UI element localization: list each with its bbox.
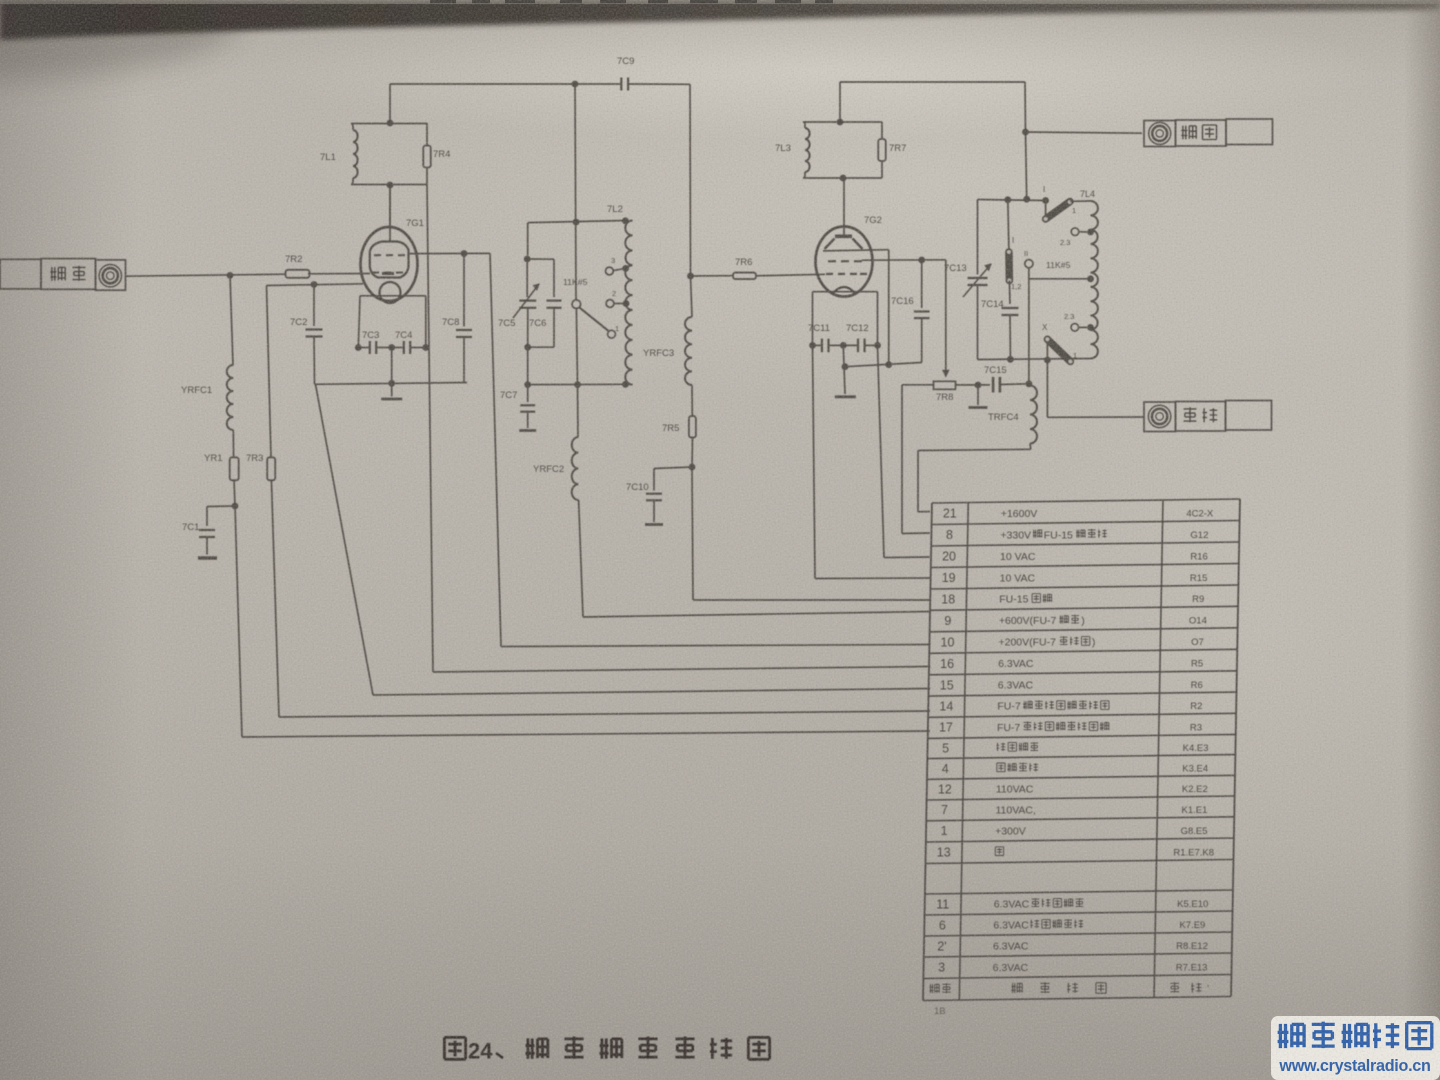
switch blade I bbox=[1045, 201, 1047, 217]
wire row17 vertical bbox=[235, 506, 242, 737]
7G1 grid dashes bbox=[374, 254, 381, 256]
wire down row18 bbox=[692, 467, 693, 600]
contact 2.3 lower bbox=[1071, 324, 1079, 332]
caption tu24 ji-li-ji-dian-yuan-li-tu bbox=[444, 1037, 465, 1059]
wire input to grid bbox=[126, 274, 287, 276]
wire screen down arrow bbox=[945, 260, 947, 371]
wire down to 7L4 rail bbox=[1026, 132, 1027, 199]
wire down to output node bbox=[1024, 82, 1027, 132]
capacitor 7C15 bbox=[992, 377, 995, 393]
capacitor 7C14 bbox=[1008, 281, 1011, 305]
wire TG1 cathode rail bbox=[315, 383, 468, 385]
capacitor 7C13 bbox=[977, 200, 979, 275]
switch 11K5 pole bbox=[572, 300, 581, 309]
wire row17 horizontal bbox=[242, 731, 930, 737]
neutralize connector (zhong-he) bbox=[1144, 402, 1176, 432]
wire YRFC2 down row9 bbox=[579, 500, 583, 617]
resistor 7R6 bbox=[691, 275, 734, 277]
contact II bbox=[1025, 260, 1033, 268]
capacitor 7C16 bbox=[921, 260, 923, 308]
inductor YRFC1 bbox=[227, 365, 233, 430]
resistor 7R3 bbox=[267, 457, 275, 480]
terminal table bbox=[932, 499, 1240, 503]
wire row15 horizontal bbox=[373, 689, 930, 696]
wire TRFC4 to row21 bbox=[1029, 444, 1032, 450]
top rail 2 bbox=[840, 81, 1025, 83]
resistor 7R2 bbox=[286, 270, 310, 278]
row8 wire TR8 net bbox=[902, 384, 934, 386]
wire row8 down bbox=[901, 385, 903, 534]
node 7C2 top bbox=[311, 281, 318, 288]
wire row14 horizontal bbox=[279, 711, 930, 717]
node rail-7L2 junction bbox=[572, 81, 579, 88]
switch lever bbox=[579, 307, 608, 331]
wire grid2 line y284 bbox=[267, 284, 364, 286]
7G1 cathode circle bbox=[380, 282, 401, 303]
capacitor 7C6 branch bbox=[527, 258, 554, 260]
tube 7G1 bbox=[361, 227, 418, 301]
capacitor 7C7 bbox=[527, 385, 529, 402]
wire TR3 top bbox=[267, 286, 272, 458]
7L2 tank top wire bbox=[528, 221, 626, 223]
capacitor 7C2 bbox=[313, 285, 315, 327]
7G1 plate ring bbox=[370, 242, 409, 278]
wire YRFC1 to YR1 bbox=[232, 430, 234, 458]
node output branch bbox=[1022, 129, 1029, 136]
wire HT vertical x575 bbox=[575, 84, 576, 300]
watermark crystalradio bbox=[1271, 1016, 1440, 1080]
node gnd TC15 bbox=[975, 382, 982, 389]
inductor 7L4 bbox=[1091, 201, 1098, 359]
inductor 7L3 bbox=[805, 128, 810, 172]
pole I string bbox=[1008, 200, 1009, 249]
switch blade II bbox=[1046, 343, 1048, 360]
wire top rail down x690 bbox=[689, 84, 692, 276]
7G2 plate lead bbox=[843, 178, 845, 238]
wire 7L3 to top rail2 bbox=[839, 82, 841, 122]
wire row9 horizontal bbox=[583, 612, 930, 618]
tank 7L3/7R7 bbox=[803, 121, 882, 123]
inductor 7L2 bbox=[625, 221, 632, 385]
ground TG1 rail bbox=[391, 383, 393, 396]
wire YR1 down bbox=[234, 480, 235, 506]
wire junction down to YRFC1 bbox=[230, 275, 233, 365]
7G2 beam plates bbox=[825, 239, 835, 250]
wire row19 bbox=[813, 345, 816, 578]
tap wire to coil bbox=[1029, 278, 1091, 280]
ground 7C1 bbox=[198, 556, 217, 559]
7G1 cathode box bbox=[360, 295, 426, 297]
wire tank to top rail bbox=[389, 84, 391, 123]
7L4 bottom rail bbox=[978, 359, 1092, 360]
7G1 plate lead bbox=[389, 185, 391, 242]
7G2 screen wire bbox=[862, 259, 946, 261]
resistor YR1 bbox=[230, 457, 239, 480]
7G2 cathode dome bbox=[832, 287, 856, 295]
contact 2 bbox=[606, 300, 614, 308]
wire row16 horizontal bbox=[433, 667, 930, 673]
inductor YRFC2 bbox=[577, 385, 580, 437]
7G2 grid dashes bbox=[828, 260, 836, 262]
wire 7R3 down row14 bbox=[271, 480, 279, 717]
resistor 7R8 bbox=[934, 381, 956, 389]
wire tank to 7G1 plate bbox=[389, 185, 391, 230]
wire row10 horizontal bbox=[501, 645, 930, 647]
capacitor 7C11 bbox=[813, 344, 822, 346]
7G2 beam plate wire bbox=[823, 250, 889, 251]
input connector J1 (shu-ru) bbox=[0, 259, 41, 289]
wire screen down row10 bbox=[490, 253, 501, 646]
wire cathode mid gnd bbox=[843, 345, 845, 394]
wire contact down bbox=[1028, 268, 1030, 384]
wire neutral bbox=[1046, 360, 1048, 417]
7C5 arrow bbox=[513, 284, 539, 318]
wire to output connector bbox=[1026, 132, 1143, 133]
7L4 top rail bbox=[978, 200, 1046, 201]
capacitor 7C10 bbox=[654, 467, 692, 469]
resistor 7R4 bbox=[423, 146, 431, 168]
wire row20 bbox=[878, 345, 885, 557]
ground 7R8 net bbox=[977, 385, 979, 405]
wire row18 horizontal bbox=[693, 599, 930, 601]
wire 7R6 to 7G2 grid bbox=[756, 274, 825, 276]
wire cathode mid to ground rail bbox=[391, 348, 393, 384]
contact 2.3 upper bbox=[1071, 228, 1079, 236]
node 7C8 top bbox=[461, 250, 468, 257]
resistor 7R7 bbox=[878, 139, 886, 161]
7G1 screen lead right bbox=[409, 252, 490, 254]
inductor 7L1 bbox=[353, 130, 358, 178]
capacitor 7C3 bbox=[358, 347, 369, 349]
wire blade to coil bbox=[1070, 200, 1091, 202]
node rail ground bbox=[388, 380, 395, 387]
capacitor 7C8 bbox=[463, 254, 465, 327]
tube 7G2 bbox=[816, 227, 873, 297]
node bias junction bbox=[232, 503, 239, 510]
wire gnd tap bbox=[845, 363, 922, 367]
capacitor 7C1 branch bbox=[207, 505, 235, 508]
wire tank-right down row16 bbox=[427, 185, 433, 672]
wire 7R2 to 7G1 grid bbox=[308, 273, 370, 275]
capacitor 7C5 string bbox=[527, 223, 529, 256]
inductor TRFC4 bbox=[1030, 386, 1037, 444]
capacitor 7C9 bbox=[620, 78, 622, 91]
inductor YRFC3 bbox=[691, 276, 693, 317]
contact 3 bbox=[606, 267, 614, 275]
top rail 1 bbox=[390, 83, 621, 85]
capacitor 7C12 bbox=[829, 344, 858, 346]
node 7C10 junction bbox=[689, 464, 696, 471]
7G2 plate bar bbox=[835, 235, 852, 239]
7G2 cathode box bbox=[813, 291, 878, 293]
capacitor 7C4 bbox=[377, 347, 404, 349]
output connector (shu-chu) bbox=[1144, 121, 1176, 147]
7L2 bottom rail bbox=[528, 383, 633, 385]
tank 7L1/7R4 bbox=[351, 123, 427, 125]
resistor 7R5 bbox=[691, 385, 693, 416]
wire rail-left down row15 bbox=[316, 384, 374, 695]
node grid2 junction bbox=[687, 273, 694, 280]
node input junction bbox=[227, 272, 234, 279]
